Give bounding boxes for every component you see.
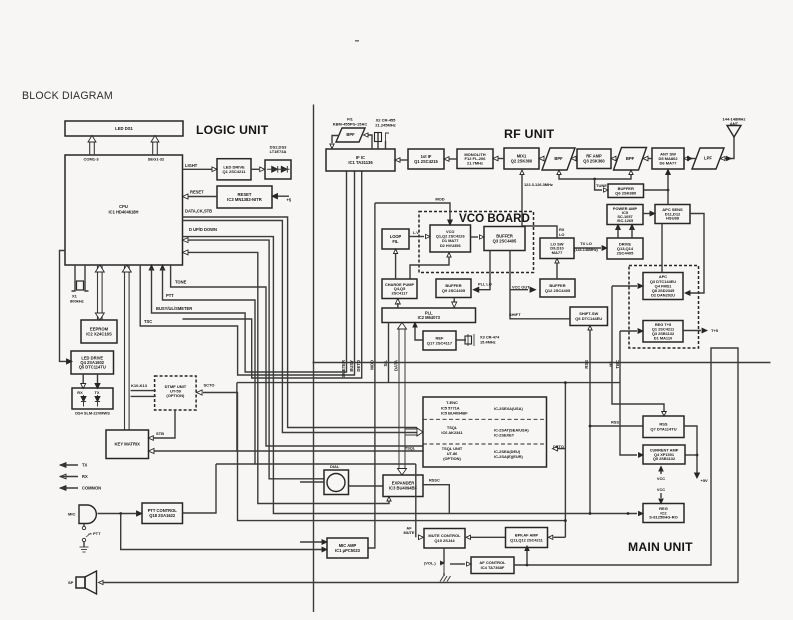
- svg-text:Q2 2SK360: Q2 2SK360: [511, 158, 533, 163]
- svg-text:HSU88: HSU88: [666, 216, 680, 221]
- svg-text:SCTO: SCTO: [204, 383, 215, 388]
- svg-text:IC1 μPC5023: IC1 μPC5023: [335, 548, 361, 553]
- svg-text:Q9 2SC4405: Q9 2SC4405: [442, 288, 466, 293]
- svg-text:DETO: DETO: [356, 359, 361, 371]
- svg-text:2SC4117: 2SC4117: [391, 290, 407, 295]
- svg-text:Q17 2SC4117: Q17 2SC4117: [427, 340, 453, 345]
- svg-text:DATA: DATA: [394, 360, 399, 371]
- svg-text:IC2 X24C16S: IC2 X24C16S: [86, 332, 112, 337]
- svg-text:D UP/D DOWN: D UP/D DOWN: [189, 227, 217, 232]
- svg-text:TX LO: TX LO: [580, 241, 592, 246]
- svg-text:LIGHT: LIGHT: [185, 163, 198, 168]
- svg-text:IC5 BU4094BF: IC5 BU4094BF: [441, 410, 468, 415]
- svg-text:BLOCK DIAGRAM: BLOCK DIAGRAM: [22, 90, 113, 102]
- svg-text:IC-2SEXET: IC-2SEXET: [494, 433, 515, 438]
- svg-text:S/L: S/L: [383, 360, 388, 367]
- svg-text:RSSC: RSSC: [429, 478, 440, 483]
- svg-text:IC-2SEXA(USA): IC-2SEXA(USA): [494, 406, 523, 411]
- svg-text:BUSY: BUSY: [349, 360, 354, 372]
- svg-text:KBM-455PG-15AC: KBM-455PG-15AC: [333, 121, 368, 126]
- svg-text:KEY MATRIX: KEY MATRIX: [115, 442, 141, 447]
- svg-text:VCC OUT: VCC OUT: [512, 285, 530, 290]
- svg-text:RESET: RESET: [190, 190, 204, 195]
- svg-text:IC4 TA7368F: IC4 TA7368F: [481, 565, 505, 570]
- svg-text:FIL: FIL: [392, 239, 399, 244]
- svg-text:SP: SP: [68, 580, 74, 585]
- svg-text:L.V: L.V: [413, 231, 419, 235]
- svg-text:TX: TX: [82, 463, 88, 468]
- svg-text:D6 MA77: D6 MA77: [660, 160, 678, 165]
- svg-text:21.245MHz: 21.245MHz: [375, 122, 395, 127]
- svg-text:LT1E73A: LT1E73A: [270, 149, 287, 154]
- svg-text:MUTE: MUTE: [403, 530, 414, 535]
- svg-text:MIC: MIC: [68, 512, 75, 517]
- svg-text:PLL LO: PLL LO: [478, 282, 492, 287]
- svg-text:Q10 2SJ44: Q10 2SJ44: [434, 538, 455, 543]
- svg-text:TUNE: TUNE: [596, 183, 607, 188]
- svg-text:(OPTION): (OPTION): [443, 456, 461, 461]
- svg-text:Q1 2SC4211: Q1 2SC4211: [223, 169, 247, 174]
- svg-text:D1 MA110: D1 MA110: [654, 335, 672, 340]
- svg-text:DETO: DETO: [553, 444, 564, 449]
- svg-text:DATA,CK,STB: DATA,CK,STB: [185, 209, 212, 214]
- svg-text:D2 HVU356: D2 HVU356: [440, 243, 462, 248]
- svg-text:RF UNIT: RF UNIT: [504, 127, 554, 141]
- svg-text:STB: STB: [156, 431, 164, 436]
- svg-text:RSS: RSS: [611, 420, 619, 425]
- svg-text:TBC: TBC: [615, 360, 620, 369]
- svg-text:(OPTION): (OPTION): [166, 393, 185, 398]
- svg-text:BUSY/UL/SMETER: BUSY/UL/SMETER: [156, 306, 192, 311]
- svg-text:BPF: BPF: [346, 132, 355, 137]
- svg-text:Q5 2SB1132: Q5 2SB1132: [653, 456, 676, 461]
- svg-text:TONE: TONE: [175, 280, 187, 285]
- svg-text:H/L: H/L: [609, 360, 614, 367]
- svg-text:Q12 2SC4405: Q12 2SC4405: [545, 288, 571, 293]
- svg-text:Q3 2SK360: Q3 2SK360: [583, 159, 605, 164]
- svg-text:D2 DAN202U: D2 DAN202U: [651, 293, 675, 298]
- svg-text:LED DS1: LED DS1: [115, 126, 133, 131]
- svg-text:IC2 M64073: IC2 M64073: [418, 315, 441, 320]
- svg-text:Q18 2SA1622: Q18 2SA1622: [149, 513, 176, 518]
- svg-text:PTT: PTT: [166, 293, 174, 298]
- svg-text:VCC: VCC: [657, 476, 665, 481]
- svg-text:TSC: TSC: [144, 319, 152, 324]
- svg-text:Q7 DTA114TU: Q7 DTA114TU: [650, 427, 676, 432]
- svg-text:BPF: BPF: [626, 156, 635, 161]
- svg-text:DS4 SLM-22VMWS: DS4 SLM-22VMWS: [75, 411, 110, 416]
- svg-text:IC-2SA(E)(EUR): IC-2SA(E)(EUR): [494, 454, 523, 459]
- svg-text:S-81250HG-RO: S-81250HG-RO: [649, 515, 677, 520]
- svg-text:COM1-3: COM1-3: [83, 157, 99, 162]
- svg-text:2SC4405: 2SC4405: [617, 250, 634, 255]
- svg-text:+5: +5: [287, 198, 292, 203]
- svg-text:SMETER: SMETER: [341, 360, 346, 377]
- svg-text:Q3 2SC4405: Q3 2SC4405: [493, 238, 517, 243]
- svg-text:TX: TX: [95, 390, 100, 395]
- svg-text:K10-K13: K10-K13: [131, 383, 148, 388]
- svg-text:+5V: +5V: [701, 478, 709, 483]
- svg-text:DIAL: DIAL: [330, 464, 340, 469]
- svg-text:21.7MHz: 21.7MHz: [467, 161, 483, 166]
- svg-text:Q11,Q12 2SC4211: Q11,Q12 2SC4211: [510, 537, 543, 542]
- svg-text:SHIFT: SHIFT: [509, 312, 521, 317]
- svg-text:CPU: CPU: [119, 204, 128, 209]
- svg-text:MA77: MA77: [552, 250, 563, 255]
- svg-text:RSS: RSS: [584, 360, 589, 369]
- svg-text:PTT: PTT: [93, 531, 101, 536]
- svg-text:BPF: BPF: [554, 156, 563, 161]
- svg-text:Q6 2SK880: Q6 2SK880: [615, 190, 637, 195]
- svg-text:IC3 MN1382-NITR: IC3 MN1382-NITR: [227, 197, 262, 202]
- svg-text:IC1 HD404618H: IC1 HD404618H: [108, 210, 138, 215]
- svg-text:Q1 2SC4215: Q1 2SC4215: [414, 159, 438, 164]
- svg-text:122.3-126.3MHz: 122.3-126.3MHz: [524, 182, 553, 187]
- svg-text:800kHz: 800kHz: [70, 299, 84, 304]
- svg-text:IC1 TA31136: IC1 TA31136: [348, 160, 373, 165]
- svg-text:RX: RX: [82, 474, 88, 479]
- svg-text:TSQL: TSQL: [405, 446, 416, 451]
- svg-text:15.4MHz: 15.4MHz: [480, 340, 496, 345]
- svg-text:VCO BOARD: VCO BOARD: [459, 212, 530, 225]
- svg-text:Q5 DTC114TU: Q5 DTC114TU: [79, 365, 106, 370]
- svg-text:IC3 BU4094BF: IC3 BU4094BF: [389, 486, 417, 491]
- svg-text:IC6 AK2341: IC6 AK2341: [441, 430, 463, 435]
- svg-text:(VOL.): (VOL.): [424, 561, 436, 566]
- svg-text:COMMON: COMMON: [82, 486, 101, 491]
- svg-text:LO: LO: [559, 232, 564, 237]
- svg-text:MAIN UNIT: MAIN UNIT: [628, 540, 693, 554]
- svg-text:T+5: T+5: [711, 328, 719, 333]
- svg-text:VCC: VCC: [657, 487, 665, 492]
- svg-text:LOGIC UNIT: LOGIC UNIT: [196, 123, 269, 137]
- svg-text:Q6 DTC144EU: Q6 DTC144EU: [575, 316, 602, 321]
- svg-text:T-ENC: T-ENC: [446, 400, 458, 405]
- svg-text:MOD: MOD: [369, 360, 374, 370]
- svg-text:MOD: MOD: [435, 197, 444, 202]
- svg-text:SEG1-32: SEG1-32: [148, 157, 165, 162]
- svg-text:/SC-1265: /SC-1265: [617, 218, 634, 223]
- svg-text:LPF: LPF: [704, 156, 712, 161]
- svg-text:RX: RX: [77, 390, 83, 395]
- svg-text:ANT: ANT: [730, 121, 739, 126]
